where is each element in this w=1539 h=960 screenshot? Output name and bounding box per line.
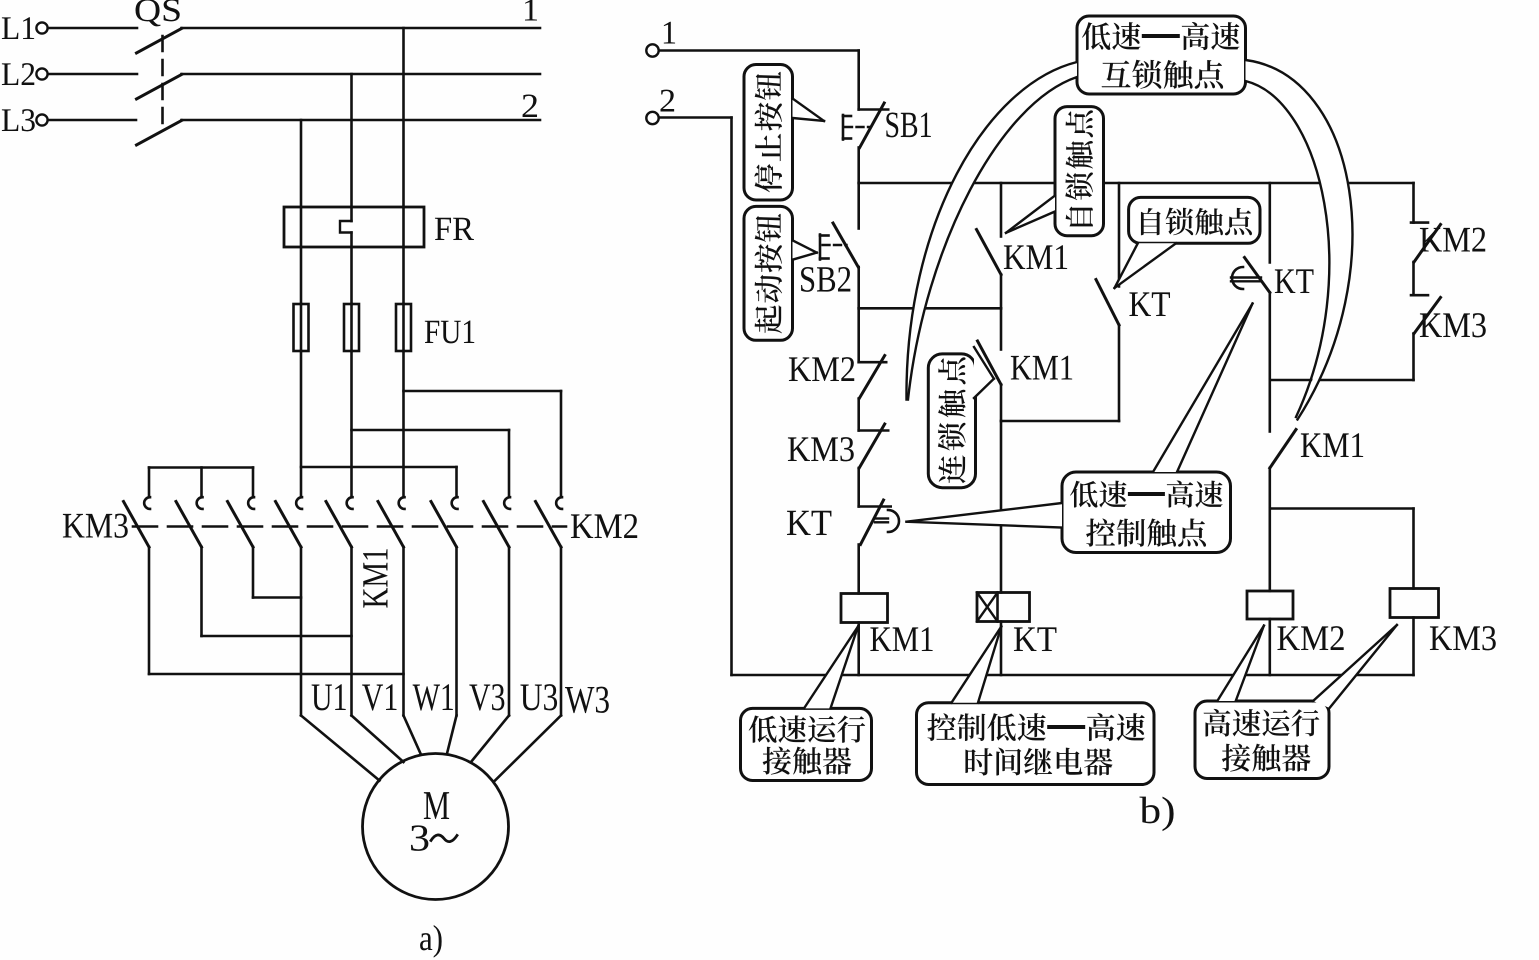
label QS <box>136 0 180 26</box>
wire KM3a to W1 <box>149 673 404 676</box>
wire KT selflock to node3 <box>1118 325 1121 421</box>
wire V3 down <box>455 547 458 716</box>
wire KM3NC to KT NC <box>857 468 860 507</box>
label KM2 (NC interlock) <box>789 357 854 381</box>
wire node2 to KM1 interlock <box>1000 308 1003 349</box>
terminal label U1 <box>312 684 346 710</box>
wire FR internal A <box>300 207 303 247</box>
wire L3 to QS <box>48 119 136 122</box>
annotation low-high control contact balloon (di su - gao su kong zhi chu dian) <box>907 304 1253 553</box>
terminal L2 <box>2 63 48 85</box>
wire FU1 to KM1 contact c <box>402 351 405 497</box>
annotation stop-button balloon (ting zhi an niu) <box>744 65 824 201</box>
fuse FU1 element 3 <box>396 304 411 351</box>
label KM1 (coil) <box>870 627 932 651</box>
label FU1 <box>425 321 474 344</box>
terminal label W3 <box>565 687 609 713</box>
wire W1 down <box>402 547 405 716</box>
wire line 2 (L3 phase) <box>182 119 541 122</box>
wire KT coil to rail <box>1000 622 1003 676</box>
label KM1 (high-speed contact) <box>1301 433 1363 457</box>
contact KM2 NC (high branch interlock) <box>1411 223 1441 262</box>
wire KM1c to node5 <box>1269 468 1272 509</box>
node label 1 <box>525 0 537 21</box>
contactor KM2 main contact 1 <box>431 497 458 547</box>
wire KM1 coil to rail <box>857 623 860 676</box>
wire FR internal B <box>350 207 353 221</box>
wire branch L1 to KM2 c <box>404 391 562 497</box>
wire KT timed to node4 <box>1269 293 1272 381</box>
contactor KM2 main contact 2 <box>484 497 511 547</box>
caption a) <box>420 925 442 958</box>
annotation low-speed contactor balloon (di su yun xing jie chu qi) <box>741 627 872 781</box>
label SB2 <box>801 267 850 292</box>
wire FR internal C <box>402 207 405 247</box>
terminal L1 <box>2 17 48 39</box>
wire KM3 coil to rail <box>1412 618 1415 676</box>
pushbutton SB1 (NC stop) <box>843 103 888 148</box>
wire KT to KM1 coil <box>857 545 860 594</box>
wire line (L2 phase) <box>182 73 541 76</box>
wire rail1 to KT selflock <box>1118 183 1121 287</box>
wire drop L1 phase <box>402 28 405 207</box>
motor M 3~ <box>363 754 509 900</box>
lead V1 to motor <box>352 716 404 763</box>
annotation self-lock balloon (zi suo chu dian) for KT <box>1115 197 1261 288</box>
wire terminal2 to bottom rail <box>659 118 732 676</box>
wire KM2c to KM3c <box>1412 262 1415 295</box>
wire KM3 bus stub c <box>252 468 255 498</box>
wire U1 down <box>300 547 303 716</box>
contactor KM1 main contact 3 <box>378 497 405 547</box>
label KM3 (NC high branch) <box>1420 313 1486 337</box>
annotation high-speed contactor balloon (gao su yun xing jie chu qi) <box>1195 625 1397 779</box>
wire SB2 to node2 <box>857 267 860 308</box>
label KM3 (main contacts) <box>63 514 128 538</box>
label SB1 <box>886 113 930 138</box>
wire line 1 (L1 phase) <box>182 27 541 30</box>
contactor linkage (dashed) <box>133 525 566 528</box>
wire rail1 to KM1 selflock <box>1000 183 1003 237</box>
control rail 3 <box>1001 420 1119 423</box>
wire FR internal B2 <box>350 233 353 248</box>
wire drop L2 phase <box>350 74 353 207</box>
label KM1 (chain contact) <box>1011 356 1072 380</box>
wire FR to FU1 c <box>402 247 405 304</box>
contactor KM3 main contact 2 <box>176 497 203 547</box>
contact KM1 NO (self-lock) <box>977 230 1002 275</box>
wire KM3 b down <box>200 547 203 636</box>
QS linkage (dashed) <box>161 36 164 132</box>
annotation self-lock balloon vertical (zi suo chu dian) for KM1 <box>1006 107 1104 236</box>
label KM2 (coil) <box>1277 626 1343 650</box>
contact KM3 NC (high branch interlock) <box>1411 295 1441 333</box>
lead W1 to motor <box>404 716 421 754</box>
label KT (timed contact) <box>1275 269 1314 293</box>
terminal label W1 <box>413 684 453 710</box>
coil KM1 <box>841 594 888 623</box>
wire KM3c to node4 <box>1412 334 1415 381</box>
wire KM3c to U1 <box>253 596 301 599</box>
wire FU1 to KM1 contact b <box>350 351 353 497</box>
terminal label V3 <box>469 684 504 710</box>
wire node4 to KM1 NO <box>1269 380 1272 432</box>
wire V1 down <box>350 547 353 716</box>
contactor KM2 main contact 3 <box>536 497 563 547</box>
wire KM3 bus stub b <box>200 468 203 498</box>
coil KM2 <box>1247 591 1293 619</box>
annotation low-high interlock balloon (di su - gao su hu suo chu dian) <box>906 16 1352 420</box>
wire rail1 to SB2 <box>857 183 860 229</box>
lead W3 to motor <box>495 716 561 781</box>
contact KM2 NC (interlock) <box>859 356 887 399</box>
lead V3 to motor <box>447 716 457 754</box>
annotation start-button balloon (qi dong an niu) <box>744 206 817 340</box>
label KM1 (self-lock contact) <box>1004 245 1067 269</box>
node label 2 <box>523 94 537 117</box>
wire node5 to KM2 coil <box>1269 509 1272 592</box>
wire KM3b to V1 <box>202 635 352 638</box>
terminal label U3 <box>520 684 557 710</box>
wire drop L3 phase <box>300 120 303 207</box>
wire node3 to KT coil <box>1000 421 1003 593</box>
terminal 1 (control) <box>646 22 675 57</box>
contactor KM1 main contact 2 <box>326 497 353 547</box>
coil KM3 <box>1390 589 1439 618</box>
wire KM2 coil to rail <box>1269 619 1272 675</box>
wire rail1 to KM2 NC <box>1412 183 1415 223</box>
contactor KM3 main contact 1 <box>124 497 151 547</box>
wire rail1 to KT timed <box>1269 183 1272 263</box>
control rail 4 <box>1270 379 1414 382</box>
wire U3 down <box>508 547 511 716</box>
label KM2 (NC high branch) <box>1420 228 1485 252</box>
wire branch L2 to KM2 b <box>352 430 510 497</box>
pushbutton SB2 (NO start) <box>820 223 858 267</box>
wire branch L3 to KM2 a <box>301 467 457 497</box>
contact KM3 NC (interlock) <box>859 424 889 468</box>
coil KT (time relay) <box>977 593 1030 622</box>
wire KM1B to node3 <box>1000 385 1003 422</box>
terminal label V1 <box>362 684 396 710</box>
contact KM1 NO (chain interlock) <box>978 341 1002 385</box>
wire L1 to QS <box>48 27 137 30</box>
terminal L3 <box>2 109 48 131</box>
wire FR to FU1 b <box>350 247 353 304</box>
terminal 2 (control) <box>646 90 674 125</box>
contactor KM3 main contact 3 <box>228 497 255 547</box>
wire L2 to QS <box>48 73 137 76</box>
FR heater element notch <box>340 221 352 233</box>
wire KM3 c down <box>252 547 255 598</box>
wire FR to FU1 a <box>300 247 303 304</box>
wire KM1A to node2 <box>1000 275 1003 309</box>
contact KM1 NO (high-speed enable) <box>1270 430 1296 469</box>
fuse FU1 element 2 <box>344 304 359 351</box>
wire node5 to KM3 coil <box>1412 509 1415 589</box>
wire SB1 to rail1 <box>857 148 860 184</box>
knife switch QS pole 3 <box>137 121 182 146</box>
contact KT NO (self-lock) <box>1096 280 1119 326</box>
thermal relay FR box <box>284 207 424 247</box>
wire KM3 bus stub a <box>148 468 151 498</box>
fuse FU1 element 1 <box>294 304 309 351</box>
contact KT NC delayed-opening <box>859 500 899 545</box>
knife switch QS pole 1 <box>137 29 182 54</box>
wire KM3 a down <box>148 547 151 674</box>
contact KT NO delayed-closing <box>1231 258 1270 293</box>
control rail 5 <box>1270 507 1414 510</box>
annotation chain-lock balloon (lian suo chu dian) <box>928 347 994 488</box>
annotation time-relay balloon (kong zhi di su - gao su shi jian ji dian qi) <box>917 627 1155 785</box>
wire FU1 to KM1 contact a <box>300 351 303 497</box>
bottom supply rail <box>732 674 1414 677</box>
label KM3 (NC interlock) <box>788 437 854 461</box>
control rail 2 (self-lock node) <box>859 307 1001 310</box>
contactor KM1 main contact 1 <box>276 497 303 547</box>
label KM2 (main contacts) <box>571 514 637 538</box>
label KM3 (coil) <box>1430 626 1496 650</box>
lead U3 to motor <box>471 716 509 763</box>
knife switch QS pole 2 <box>137 75 182 100</box>
lead U1 to motor <box>301 716 380 781</box>
label FR <box>435 218 474 240</box>
caption b) <box>1140 797 1174 831</box>
wire KM2NC to KM3NC <box>857 399 860 431</box>
label KM1 (main contacts, rotated) <box>363 549 387 607</box>
wire node2 to KM2 NC <box>857 308 860 362</box>
control rail 1 <box>859 182 1414 185</box>
label KT (coil) <box>1014 627 1057 651</box>
label KT (self-lock contact) <box>1129 292 1170 316</box>
wire terminal1 to SB1 branch <box>659 51 859 110</box>
label KT (NC delayed contact) <box>787 511 831 535</box>
wire W3 down <box>560 547 563 716</box>
wire KM3 star-point bus <box>149 466 253 469</box>
